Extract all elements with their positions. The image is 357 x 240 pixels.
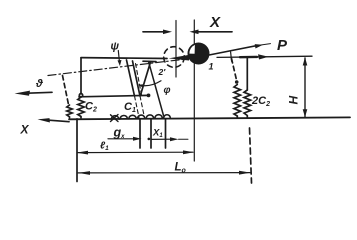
leg dashed continuation 1 [135,96,140,118]
pivot circle (spring C2 top) [79,94,82,97]
force P arrow tail [240,56,257,59]
top dimension right arrowhead [190,30,199,35]
psi arrowhead [118,60,122,66]
horizontal spring C [111,115,170,119]
platform left edge [80,58,82,94]
top dimension left arrowhead [163,30,172,35]
extension line right (dashed) [250,128,252,183]
velocity arrowhead [15,91,31,96]
ground line (x axis) [69,117,350,119]
dim g line [108,138,135,140]
svg-text:φ: φ [164,85,171,96]
svg-text:1: 1 [209,62,214,72]
dim L0 right arrowhead [239,171,251,175]
main leg [149,61,164,115]
attachment tick [231,52,232,61]
small spring under dashed edge [67,105,72,118]
dim l1 right arrowhead [183,150,194,154]
phi arrowhead [138,84,144,88]
extension line a [139,119,141,148]
dim l1 line [78,151,193,153]
svg-text:P: P [277,37,288,54]
dashed circle (mass position 2) [164,47,185,68]
leg pair line 2 [133,61,141,96]
extension line left (below ground) [76,119,78,182]
phi angle arc [140,81,162,86]
spring 2C2 [244,90,251,117]
H top arrowhead [303,57,308,65]
dim l1 left arrowhead [77,151,89,155]
svg-text:2′: 2′ [158,67,167,77]
svg-text:X: X [20,123,30,137]
dim L0 line [78,172,250,174]
joint dot [147,94,151,98]
spring C2 [78,97,84,118]
main leg top tick [143,60,156,62]
H bottom arrowhead [303,109,308,117]
dash-dot equilibrium line of lever [48,59,188,76]
dim X1 tail [179,138,189,140]
lever arrowhead [255,44,263,48]
platform bottom edge [79,95,149,96]
connector wedge into mass [169,55,190,61]
spring C left anchor cross [111,115,119,122]
svg-text:ϑ: ϑ [35,78,44,90]
dashed link to right spring [232,59,237,81]
svg-text:X: X [209,14,221,31]
dim g arrowhead [133,137,142,141]
dashed tilted left edge [63,76,69,105]
leg dashed middle [136,64,142,96]
top dimension line right segment [196,31,232,33]
velocity arrow [24,92,52,93]
dim X1 start dot [148,138,151,141]
x-axis arrowhead [38,118,50,122]
platform top line [81,57,167,60]
mass white quadrant [189,45,195,54]
right spring under dashed link [234,85,241,118]
centerline of position-2 circle [175,21,177,78]
psi angle arrow [118,51,119,62]
leg dashed continuation 2 [140,96,145,118]
lever thin continuation [259,44,271,46]
mass (position 1, centre-of-gravity symbol) [188,43,210,65]
back leg [141,62,151,95]
2C2 hanger vertical [246,57,248,90]
x-axis arrow segment [44,120,69,122]
dot at right spring top [235,80,239,84]
dim X1 arrowhead [170,137,179,141]
top dimension line left segment [143,31,166,33]
extension line c [165,119,167,148]
dim X1 line [151,138,172,140]
svg-text:H: H [287,96,301,105]
force P arrowhead [258,54,269,59]
svg-text:ψ: ψ [111,41,120,53]
H dimension line [304,58,306,117]
top reference line right [217,56,312,57]
dim L0 left arrowhead [78,171,90,175]
leg pair line 1 [127,60,135,96]
lever rod [204,46,256,56]
centerline of mass (long) [193,20,195,161]
extension line b [150,119,152,148]
